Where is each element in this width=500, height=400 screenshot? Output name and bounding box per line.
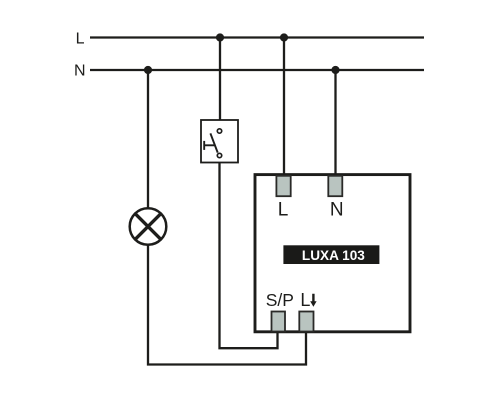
- node junction L line / terminal L wire: [280, 33, 288, 41]
- switch S1 top contact: [217, 129, 221, 133]
- wire from N line through lamp to terminal L-down: [148, 70, 306, 365]
- wire from switch down to terminal S/P: [220, 157, 278, 348]
- terminal N (top, gray): [328, 176, 342, 196]
- lamp E1 cross stroke 2: [135, 214, 161, 240]
- wire L line: [90, 36, 424, 38]
- switch S1 push actuator bar: [203, 141, 205, 150]
- lamp E1 cross stroke 1: [135, 214, 161, 240]
- node junction N line / lamp wire: [144, 66, 152, 74]
- LUXA 103 nameplate: [283, 245, 379, 264]
- terminal S/P (bottom, gray): [272, 312, 286, 332]
- svg-text:N: N: [74, 63, 86, 80]
- node junction N line / terminal N wire: [331, 66, 339, 74]
- svg-text:N: N: [330, 200, 344, 221]
- push-button switch S1 box: [201, 120, 238, 163]
- svg-text:L: L: [76, 31, 85, 48]
- wire from N line down to LUXA terminal N: [334, 70, 336, 178]
- arrow down of terminal L-down label: [310, 294, 316, 307]
- terminal L-down (bottom, gray): [299, 312, 313, 332]
- switch S1 push actuator stem: [204, 144, 215, 146]
- svg-text:L: L: [278, 200, 289, 221]
- lamp E1 circle: [130, 208, 167, 245]
- LUXA 103 unit outline: [255, 175, 410, 332]
- wire N line: [90, 69, 424, 71]
- wire from L line down to switch: [219, 38, 221, 131]
- terminal L (top, gray): [276, 176, 290, 196]
- switch S1 bottom contact: [217, 153, 221, 157]
- svg-text:L: L: [300, 290, 310, 310]
- svg-text:LUXA 103: LUXA 103: [302, 248, 365, 263]
- svg-text:S/P: S/P: [266, 290, 294, 310]
- node junction L line / switch wire: [216, 33, 224, 41]
- switch S1 lever: [210, 133, 217, 152]
- wire from L line down to LUXA terminal L: [283, 38, 285, 179]
